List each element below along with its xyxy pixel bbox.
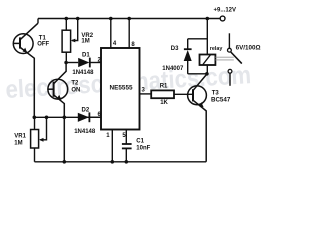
arrowhead T3 emitter (199, 102, 204, 107)
wire rail corner to T1 collector (37, 19, 39, 24)
svg-text:ON: ON (71, 87, 80, 93)
switch blade (231, 52, 242, 64)
wire pin 8 lead (128, 19, 130, 49)
svg-text:T1: T1 (39, 35, 47, 41)
wire pin 5 lead (125, 130, 127, 145)
svg-text:T3: T3 (212, 91, 220, 97)
diode D2 (78, 112, 101, 122)
junction dot rail VR2 top (65, 17, 69, 21)
junction dot VR1 wiper / bias line (45, 116, 49, 120)
junction dot T2 emitter / bias line (63, 116, 67, 120)
switch top contact (228, 33, 232, 52)
svg-text:1M: 1M (14, 141, 22, 147)
svg-text:10nF: 10nF (136, 146, 150, 152)
op IC NE555 (101, 48, 140, 130)
svg-text:D1: D1 (82, 53, 90, 59)
transistor T3 (188, 74, 207, 162)
transistor T1 (13, 23, 38, 117)
svg-text:OFF: OFF (37, 42, 49, 48)
wire top supply rail (38, 18, 220, 20)
switch bottom contact (228, 69, 232, 85)
svg-text:C1: C1 (136, 139, 144, 145)
svg-text:1N4007: 1N4007 (162, 66, 184, 72)
relay coil (200, 55, 216, 66)
junction dot rail pin8 (127, 17, 131, 21)
wire pin 3 output (140, 93, 152, 95)
relay linkage dashes (215, 57, 233, 60)
arrowhead T2 emitter (57, 95, 62, 100)
resistor R1 (151, 90, 174, 98)
junction dot T2 emitter / ground rail (63, 160, 67, 164)
svg-text:+9...12V: +9...12V (214, 8, 237, 14)
junction dot C1 ground (125, 160, 129, 164)
wire bottom ground rail (35, 161, 207, 163)
wire pin 1 lead (111, 130, 113, 162)
junction dot rail relay feed (206, 17, 210, 21)
potentiometer VR1 (31, 117, 47, 162)
junction dot rail VR2 wiper (76, 17, 80, 21)
svg-text:VR1: VR1 (14, 133, 26, 139)
junction dot T1 emitter / bias line (33, 116, 37, 120)
arrowhead T1 emitter (23, 48, 28, 53)
wire pin 4 lead (110, 19, 112, 49)
supply terminal +9...12V (214, 8, 237, 21)
capacitor C1 (122, 144, 132, 162)
svg-text:1M: 1M (81, 38, 89, 44)
diode D3 (184, 39, 192, 74)
wire D2/pin6 bias line (34, 116, 101, 118)
svg-text:T2: T2 (71, 81, 79, 87)
junction dot VR2/D1/T2 (64, 61, 68, 65)
svg-text:6V/100Ω: 6V/100Ω (236, 44, 261, 51)
svg-text:1K: 1K (160, 100, 168, 106)
junction dot relay/T3 collector (205, 72, 209, 76)
svg-text:relay: relay (210, 46, 223, 52)
svg-text:D2: D2 (82, 107, 90, 113)
potentiometer VR2 (62, 19, 78, 63)
wire D3 bottom link (188, 73, 208, 75)
svg-text:BC547: BC547 (211, 97, 231, 104)
junction dot rail pin4 (109, 17, 113, 21)
svg-text:D3: D3 (171, 46, 179, 52)
wire relay bottom lead (206, 65, 208, 74)
wire relay feed (206, 19, 208, 55)
svg-text:NE5555: NE5555 (110, 84, 134, 91)
diode D1 (66, 58, 101, 68)
transistor T2 (48, 63, 68, 162)
svg-text:1N4148: 1N4148 (72, 70, 94, 76)
svg-text:1N4148: 1N4148 (74, 129, 96, 135)
svg-text:R1: R1 (160, 84, 168, 90)
junction dot pin1 ground (111, 160, 115, 164)
wire D3 top link (188, 38, 208, 40)
wire R1 to T3 base (174, 93, 193, 95)
